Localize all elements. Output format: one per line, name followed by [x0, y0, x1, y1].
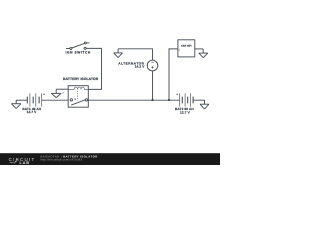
- relay U1 box: [68, 86, 88, 108]
- svg-text:BATTERY ISOLATOR: BATTERY ISOLATOR: [63, 77, 99, 81]
- switch SW1 IGN SWITCH: [66, 42, 90, 50]
- footer logo CIRCUIT LAB: [9, 157, 36, 165]
- footer bar: [0, 153, 220, 165]
- svg-text:14.2 V: 14.2 V: [135, 65, 145, 69]
- ground at BAT2: [200, 100, 209, 109]
- wire alternator to bus: [152, 71, 154, 100]
- svg-text:IGN SWITCH: IGN SWITCH: [66, 51, 91, 55]
- junction alternator-bus: [152, 99, 154, 101]
- wire CAR HIFI left pin to bus: [169, 49, 178, 100]
- svg-text:LAB: LAB: [20, 160, 30, 165]
- alternator V1 voltage source: [147, 60, 158, 71]
- junction carhifi-bus: [168, 99, 170, 101]
- ground at relay coil: [51, 89, 61, 97]
- box U2 CAR HIFI: [178, 40, 195, 57]
- svg-text:http://circuitlab.com/c/67b343: http://circuitlab.com/c/67b343: [41, 159, 83, 162]
- ground at alternator: [114, 49, 123, 58]
- wire switch to relay coil right pin: [86, 48, 101, 89]
- relay switch contacts: [70, 99, 72, 101]
- ground at BAT1: [11, 100, 21, 109]
- wire ground to alternator top: [118, 49, 152, 60]
- wire BAT1 to relay switch left pin: [42, 99, 68, 101]
- battery BAT1: [27, 93, 45, 106]
- wire BAT2 to ground: [193, 99, 204, 101]
- battery BAT2: [176, 93, 193, 106]
- polarity mark near coil: [62, 92, 64, 94]
- wire ground to BAT1: [16, 99, 27, 101]
- ground at CAR HIFI: [199, 49, 208, 58]
- relay coil: [68, 87, 88, 89]
- svg-text:12.7 V: 12.7 V: [27, 110, 38, 114]
- svg-text:CAR HIFI: CAR HIFI: [181, 45, 192, 48]
- wire relay coil left pin to ground: [56, 88, 68, 90]
- relay fixed contact tick: [75, 99, 76, 100]
- svg-text:12.7 V: 12.7 V: [180, 110, 191, 114]
- wire relay switch right pin to BAT2 (bus): [88, 99, 179, 101]
- wire CAR HIFI right pin to ground: [195, 48, 203, 50]
- relay armature dashed link: [76, 91, 78, 101]
